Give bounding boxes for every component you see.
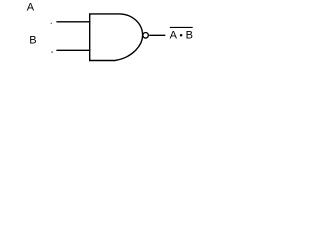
svg-text:B: B — [29, 35, 36, 47]
svg-text:A: A — [170, 30, 178, 42]
svg-text:B: B — [186, 30, 193, 42]
svg-text:A: A — [27, 2, 35, 14]
